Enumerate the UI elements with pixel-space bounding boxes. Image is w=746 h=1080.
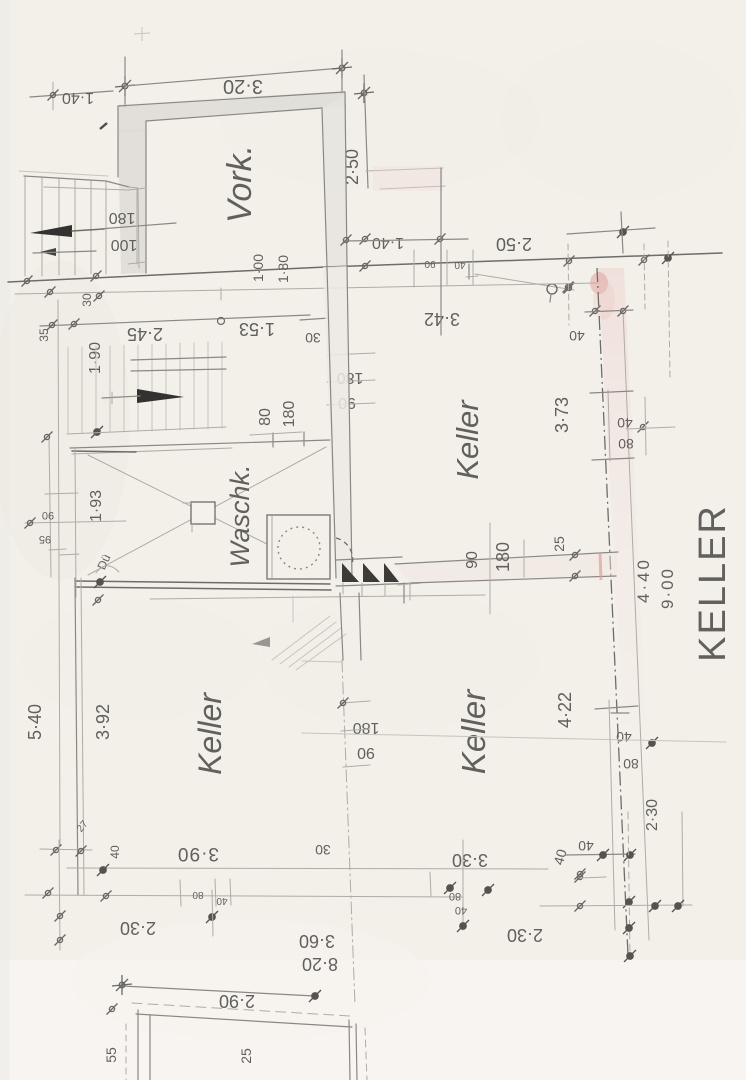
marker below wall bbox=[93, 595, 104, 606]
door cluster tick y458 bbox=[592, 458, 634, 460]
stairs dim tick top bbox=[128, 188, 146, 190]
markers cluster right bbox=[444, 882, 456, 894]
svg-text:3·20: 3·20 bbox=[223, 75, 263, 97]
pink mark wall end bbox=[600, 553, 601, 580]
Waschk bottom wall line 2 bbox=[75, 587, 331, 590]
center wall bottom line bbox=[410, 576, 616, 583]
pencil dash mark bbox=[100, 123, 107, 129]
survey marker right of top wall bbox=[354, 83, 374, 103]
middle staircase treads bbox=[68, 342, 222, 433]
svg-text:3·90: 3·90 bbox=[177, 843, 219, 864]
vertical tick x622 bbox=[621, 212, 623, 253]
marker x52 bbox=[47, 320, 58, 331]
Waschk small square on cross bbox=[191, 502, 215, 524]
marker x595 y311 bbox=[590, 306, 601, 317]
marker on line A x569 bbox=[564, 256, 575, 267]
dimension 30 label with bracket bbox=[300, 318, 329, 320]
svg-text:1·93: 1·93 bbox=[88, 490, 105, 522]
construction line B long faint bbox=[15, 283, 598, 294]
cluster right of 3.30: tick bbox=[430, 872, 431, 896]
svg-text:25: 25 bbox=[238, 1048, 254, 1064]
tick above 90 bbox=[45, 493, 78, 494]
small arrow tail bbox=[33, 251, 96, 253]
stairs dim vertical bbox=[136, 188, 138, 264]
marker 1.40 right bbox=[435, 234, 446, 245]
marker x47 y437 bbox=[42, 432, 53, 443]
marker 2.90 left bbox=[112, 975, 132, 995]
long faint line y872 bbox=[67, 868, 548, 869]
marker x623 y311 bbox=[618, 306, 629, 317]
svg-text:Keller: Keller bbox=[192, 692, 228, 775]
marker y872 x107 bbox=[97, 864, 109, 876]
vertical x60 bbox=[59, 840, 60, 950]
Vork room wall fill top band bbox=[118, 91, 346, 133]
upper stairs arrow tail bbox=[72, 229, 104, 231]
svg-text:80: 80 bbox=[449, 890, 461, 902]
marker on second line bbox=[564, 283, 575, 294]
tick line at y169 bbox=[366, 168, 443, 171]
wall outline top outer bbox=[118, 92, 345, 106]
tick at x469 bbox=[468, 264, 470, 279]
door cluster vertical bbox=[608, 390, 610, 461]
bracket under door labels bbox=[250, 432, 302, 435]
window symbol circle with tail bbox=[547, 284, 557, 294]
washing machine inner left line bbox=[271, 516, 273, 578]
upper staircase right edge bbox=[138, 188, 139, 268]
marker on line B x50 bbox=[45, 287, 56, 298]
svg-text:2·50: 2·50 bbox=[496, 234, 532, 254]
faint line above waschk wall bbox=[67, 427, 226, 434]
markers on y893 bbox=[43, 888, 54, 899]
square tick left bbox=[183, 502, 191, 504]
lower stair small arrow bbox=[252, 637, 270, 647]
svg-text:3·30: 3·30 bbox=[452, 850, 488, 870]
dimension 3.20 line bbox=[125, 68, 342, 86]
svg-text:80: 80 bbox=[623, 756, 639, 772]
red blotch at wall junction bbox=[590, 272, 608, 294]
arrow tail tick bbox=[111, 392, 113, 404]
markers on dashed vertical bbox=[623, 896, 635, 908]
vertical x212 bbox=[212, 890, 213, 936]
wall outline left outer bbox=[117, 106, 119, 177]
vertical wall edge x441 bbox=[440, 168, 442, 335]
marker x652 y743 bbox=[646, 737, 658, 749]
vertical dashed x644 bbox=[644, 244, 645, 309]
svg-text:25: 25 bbox=[551, 536, 567, 552]
marker on line A x644 bbox=[639, 255, 650, 266]
Waschk top wall dark segment bbox=[72, 451, 136, 452]
marker x212 y917 bbox=[206, 911, 218, 923]
center wall left tick down bbox=[409, 583, 411, 600]
middle staircase rail 2 bbox=[131, 369, 226, 371]
marker x365 y239 bbox=[360, 234, 371, 245]
left mid pair bracket 3 bbox=[327, 403, 375, 405]
wall second line right bbox=[623, 310, 649, 940]
svg-text:5·40: 5·40 bbox=[25, 704, 45, 740]
Waschk bottom wall line 1 bbox=[75, 581, 330, 584]
bottom building dim 2.90 line bbox=[122, 986, 315, 996]
svg-text:Waschk.: Waschk. bbox=[225, 464, 255, 567]
small double dash 1 bbox=[49, 549, 66, 550]
lower stair hatch faint bbox=[272, 616, 346, 670]
svg-text:35: 35 bbox=[37, 328, 51, 342]
center wall top line bbox=[395, 552, 618, 564]
left vertical x75 bbox=[75, 447, 76, 597]
bottom-left room right wall faint bbox=[340, 593, 343, 660]
marker x463 y926 bbox=[457, 920, 469, 932]
line y904 right bbox=[540, 905, 692, 906]
svg-text:40: 40 bbox=[216, 895, 228, 906]
upper staircase corner cut bbox=[106, 181, 129, 187]
markers on y846 bbox=[51, 845, 62, 856]
door swing arc small bbox=[96, 566, 119, 573]
bottom building dashed vertical bbox=[365, 1028, 367, 1080]
svg-text:90: 90 bbox=[464, 551, 481, 569]
small double dash 2 bbox=[60, 554, 79, 555]
faint cross top bbox=[134, 27, 150, 41]
markers y904 bbox=[575, 901, 586, 912]
svg-text:180: 180 bbox=[353, 719, 380, 736]
vertical dashed x568 bbox=[568, 244, 569, 325]
svg-text:40: 40 bbox=[578, 838, 594, 854]
ticks of 3.42 dimension bbox=[413, 250, 415, 287]
dimension 3.20 right marker bbox=[332, 58, 352, 78]
Waschk top wall line 1 bbox=[70, 440, 330, 448]
pink wash at wall niche bbox=[373, 166, 443, 191]
Waschk top wall line 2 partial bbox=[72, 448, 232, 454]
tick line x626-675 bbox=[626, 427, 675, 429]
pink wall wash vertical band bbox=[598, 268, 648, 760]
vertical x683 bbox=[682, 812, 683, 906]
marker x643 y427 bbox=[638, 422, 649, 433]
svg-text:1·80: 1·80 bbox=[275, 255, 291, 283]
marker on line A x96 bbox=[91, 271, 102, 282]
wall outline right inner bbox=[322, 108, 327, 267]
tick line y311 bbox=[585, 310, 633, 312]
svg-text:2·45: 2·45 bbox=[127, 324, 163, 344]
small cluster ticks bbox=[180, 880, 181, 906]
markers on tick bbox=[597, 849, 609, 861]
svg-text:2·30: 2·30 bbox=[507, 925, 543, 945]
svg-text:4·22: 4·22 bbox=[555, 692, 575, 728]
svg-text:3·92: 3·92 bbox=[93, 704, 113, 740]
wall outline top inner bbox=[146, 108, 322, 121]
washing machine dotted drum bbox=[278, 527, 320, 569]
svg-text:1·53: 1·53 bbox=[239, 319, 275, 339]
upper staircase treads bbox=[25, 177, 106, 276]
marker center wall top bbox=[570, 550, 581, 561]
marker on line B x568 bbox=[563, 282, 574, 293]
marker 2.90 right bbox=[309, 990, 321, 1002]
svg-text:3·73: 3·73 bbox=[552, 397, 572, 433]
dimension 1.40 mid line bbox=[346, 239, 468, 241]
tick line at y189 bbox=[380, 186, 445, 189]
Waschk cross diagonal 1 bbox=[88, 455, 267, 544]
marker on line B x99 bbox=[94, 291, 105, 302]
window symbol tail bbox=[550, 294, 551, 302]
door swing arc dashed bbox=[336, 538, 353, 565]
dark marker x623 bbox=[617, 226, 629, 238]
small arrow below bbox=[40, 248, 56, 256]
middle staircase rail 1 bbox=[131, 357, 226, 360]
svg-text:55: 55 bbox=[103, 1047, 119, 1063]
bottom building left wall v2 bbox=[149, 1015, 151, 1080]
svg-text:90: 90 bbox=[357, 744, 375, 761]
svg-text:100: 100 bbox=[111, 236, 138, 253]
marker 1.40 left bbox=[341, 235, 352, 246]
door tick x304 bbox=[303, 432, 305, 446]
svg-text:40: 40 bbox=[454, 259, 466, 270]
svg-text:1·40: 1·40 bbox=[62, 89, 94, 106]
marker x580 y875 bbox=[575, 872, 586, 883]
bottom right door arrow tick bbox=[611, 712, 629, 714]
svg-text:9·00: 9·00 bbox=[658, 567, 677, 609]
upper stairs direction arrow bbox=[30, 225, 72, 237]
svg-text:80: 80 bbox=[192, 889, 204, 900]
dimension 1.40 top-left: end tick bbox=[52, 82, 54, 110]
marker on line A x667 bbox=[662, 252, 674, 264]
svg-text:90: 90 bbox=[42, 509, 54, 521]
second wall line right room top bbox=[475, 274, 574, 290]
Vork room wall fill left band bbox=[118, 128, 146, 274]
marker bottom-left pair bbox=[338, 698, 349, 709]
bottom-left pair bracket 2 bbox=[341, 729, 370, 731]
middle stairs arrow tail bbox=[102, 396, 140, 398]
marker x74 bbox=[69, 319, 80, 330]
svg-text:2·90: 2·90 bbox=[219, 991, 255, 1011]
svg-text:1·00: 1·00 bbox=[250, 254, 266, 282]
extension line vertical at x125 bbox=[124, 57, 126, 107]
faint vertical below washk wall bbox=[292, 596, 294, 622]
tick line x583-633 bbox=[565, 854, 635, 855]
left mid pair bracket 2 bbox=[327, 380, 375, 382]
marker x365 y266 bbox=[360, 261, 371, 272]
stairs dim tick bottom bbox=[128, 262, 146, 264]
svg-text:180: 180 bbox=[493, 542, 513, 572]
long faint line y893 bbox=[25, 895, 463, 897]
svg-text:Keller: Keller bbox=[450, 399, 485, 480]
svg-text:2·30: 2·30 bbox=[120, 918, 156, 938]
bottom right door tick y707 bbox=[595, 706, 638, 709]
threshold triangle 2 bbox=[363, 563, 380, 582]
bottom building left wall v1 bbox=[137, 1010, 139, 1080]
left mid pair bracket 1 bbox=[327, 353, 375, 355]
svg-text:80: 80 bbox=[618, 436, 634, 452]
faint long vertical left x59 bbox=[58, 300, 60, 845]
bottom building right wall v1 bbox=[349, 1020, 350, 1080]
dim line 2.45 / 1.53 bbox=[40, 315, 310, 326]
bottom-left pair bracket 1 bbox=[341, 701, 370, 703]
svg-text:40: 40 bbox=[455, 904, 467, 916]
svg-text:Vork.: Vork. bbox=[221, 145, 259, 223]
svg-text:KELLER: KELLER bbox=[692, 504, 734, 662]
svg-text:30: 30 bbox=[305, 330, 321, 346]
center wall pink fill bbox=[395, 552, 618, 583]
bottom-left pair bracket 3 bbox=[343, 765, 370, 767]
Vork room wall fill right band bbox=[323, 94, 347, 267]
vertical tick x645 bbox=[645, 397, 646, 455]
stairs dim line bbox=[99, 223, 176, 229]
vertical dashed x668 bbox=[668, 241, 670, 380]
svg-text:40: 40 bbox=[569, 328, 585, 344]
svg-text:2·30: 2·30 bbox=[644, 799, 661, 831]
svg-text:Keller: Keller bbox=[455, 688, 492, 774]
svg-text:3·42: 3·42 bbox=[424, 309, 460, 329]
survey marker at top wall left corner bbox=[115, 76, 135, 96]
vertical dim line 2.50 right bbox=[364, 75, 368, 188]
marker on small dim line bbox=[25, 518, 36, 529]
marker on line A left bbox=[22, 276, 33, 287]
svg-text:30: 30 bbox=[315, 842, 331, 858]
door tick x273 bbox=[272, 433, 274, 447]
bottom building wall line 1 bbox=[132, 1003, 350, 1016]
markers left column bbox=[55, 911, 66, 922]
washing machine box bbox=[267, 515, 330, 579]
wall band between Waschk and right room bbox=[323, 266, 352, 579]
svg-text:30: 30 bbox=[80, 293, 94, 307]
wall outline right outer bbox=[345, 92, 347, 266]
dim 2.50 mid line bbox=[567, 228, 655, 234]
wall axis dash-dot line right bbox=[597, 268, 628, 955]
svg-text:180: 180 bbox=[109, 209, 136, 226]
circle marker x221 bbox=[218, 318, 225, 325]
marker x100 y582 bbox=[94, 576, 106, 588]
faint line y738 bbox=[302, 733, 726, 742]
wall line A bottom of Vork room bbox=[8, 267, 326, 282]
threshold triangle 3 bbox=[384, 563, 399, 582]
tick left of 2.90 bbox=[107, 1004, 118, 1015]
small plus tick bbox=[466, 276, 478, 277]
threshold line top bbox=[336, 557, 402, 560]
wall line A continues right room top bbox=[326, 253, 722, 267]
svg-text:90: 90 bbox=[424, 258, 436, 269]
svg-text:95: 95 bbox=[39, 533, 51, 545]
svg-text:3·60: 3·60 bbox=[299, 931, 335, 951]
svg-text:8·20: 8·20 bbox=[302, 954, 338, 974]
bottom building wall line 2 bbox=[136, 1014, 352, 1027]
bottom-left room left wall line 1 bbox=[75, 578, 78, 895]
bottom building right wall v2 bbox=[356, 1024, 357, 1080]
wall band left line bbox=[327, 267, 336, 578]
wall outline left inner bbox=[145, 121, 147, 273]
door cluster tick y391 bbox=[590, 391, 633, 393]
scan shading patches bbox=[0, 260, 130, 580]
vertical faint x613 bbox=[609, 700, 615, 930]
svg-text:1·40: 1·40 bbox=[372, 234, 404, 251]
tick right of threshold bbox=[403, 583, 405, 603]
upper staircase second rail bbox=[44, 187, 129, 190]
svg-text:40: 40 bbox=[108, 845, 122, 859]
vertical x463 bbox=[462, 840, 464, 930]
tick horizontal right of threshold bbox=[398, 583, 420, 585]
bottom cluster left: small line y846 bbox=[40, 849, 92, 850]
svg-text:180: 180 bbox=[281, 401, 298, 428]
svg-text:80: 80 bbox=[257, 408, 274, 426]
extension line vertical at x342 bbox=[341, 50, 343, 93]
threshold triangle 1 bbox=[342, 563, 359, 582]
threshold line bottom bbox=[336, 583, 420, 586]
tick on line B x221 bbox=[220, 288, 222, 300]
small dim line y522 bbox=[25, 521, 126, 523]
square tick bottom bbox=[191, 524, 193, 532]
left vertical x50 bbox=[49, 437, 51, 577]
dimension 1.40 top-left: marker bbox=[48, 90, 59, 101]
dimension 1.40 top-left: line bbox=[30, 91, 113, 97]
dashed vertical x630 bbox=[628, 812, 630, 958]
svg-text:4·40: 4·40 bbox=[634, 557, 653, 603]
bottom-left room left wall line 2 bbox=[81, 578, 84, 895]
ticks below threshold bbox=[342, 583, 344, 594]
svg-text:40: 40 bbox=[616, 729, 632, 745]
center door vertical long bbox=[489, 523, 491, 614]
center door vertical short bbox=[523, 540, 525, 577]
upper staircase top rail bbox=[24, 176, 106, 181]
marker center wall bottom bbox=[570, 571, 581, 582]
Waschk cross diagonal 2 bbox=[88, 447, 326, 575]
wall band right line bbox=[347, 266, 352, 577]
faint line below bottom wall bbox=[150, 595, 485, 599]
marker y874 x580 bbox=[575, 869, 586, 880]
middle stairs arrow bbox=[137, 389, 184, 403]
marker at x99 y432 bbox=[91, 426, 103, 438]
